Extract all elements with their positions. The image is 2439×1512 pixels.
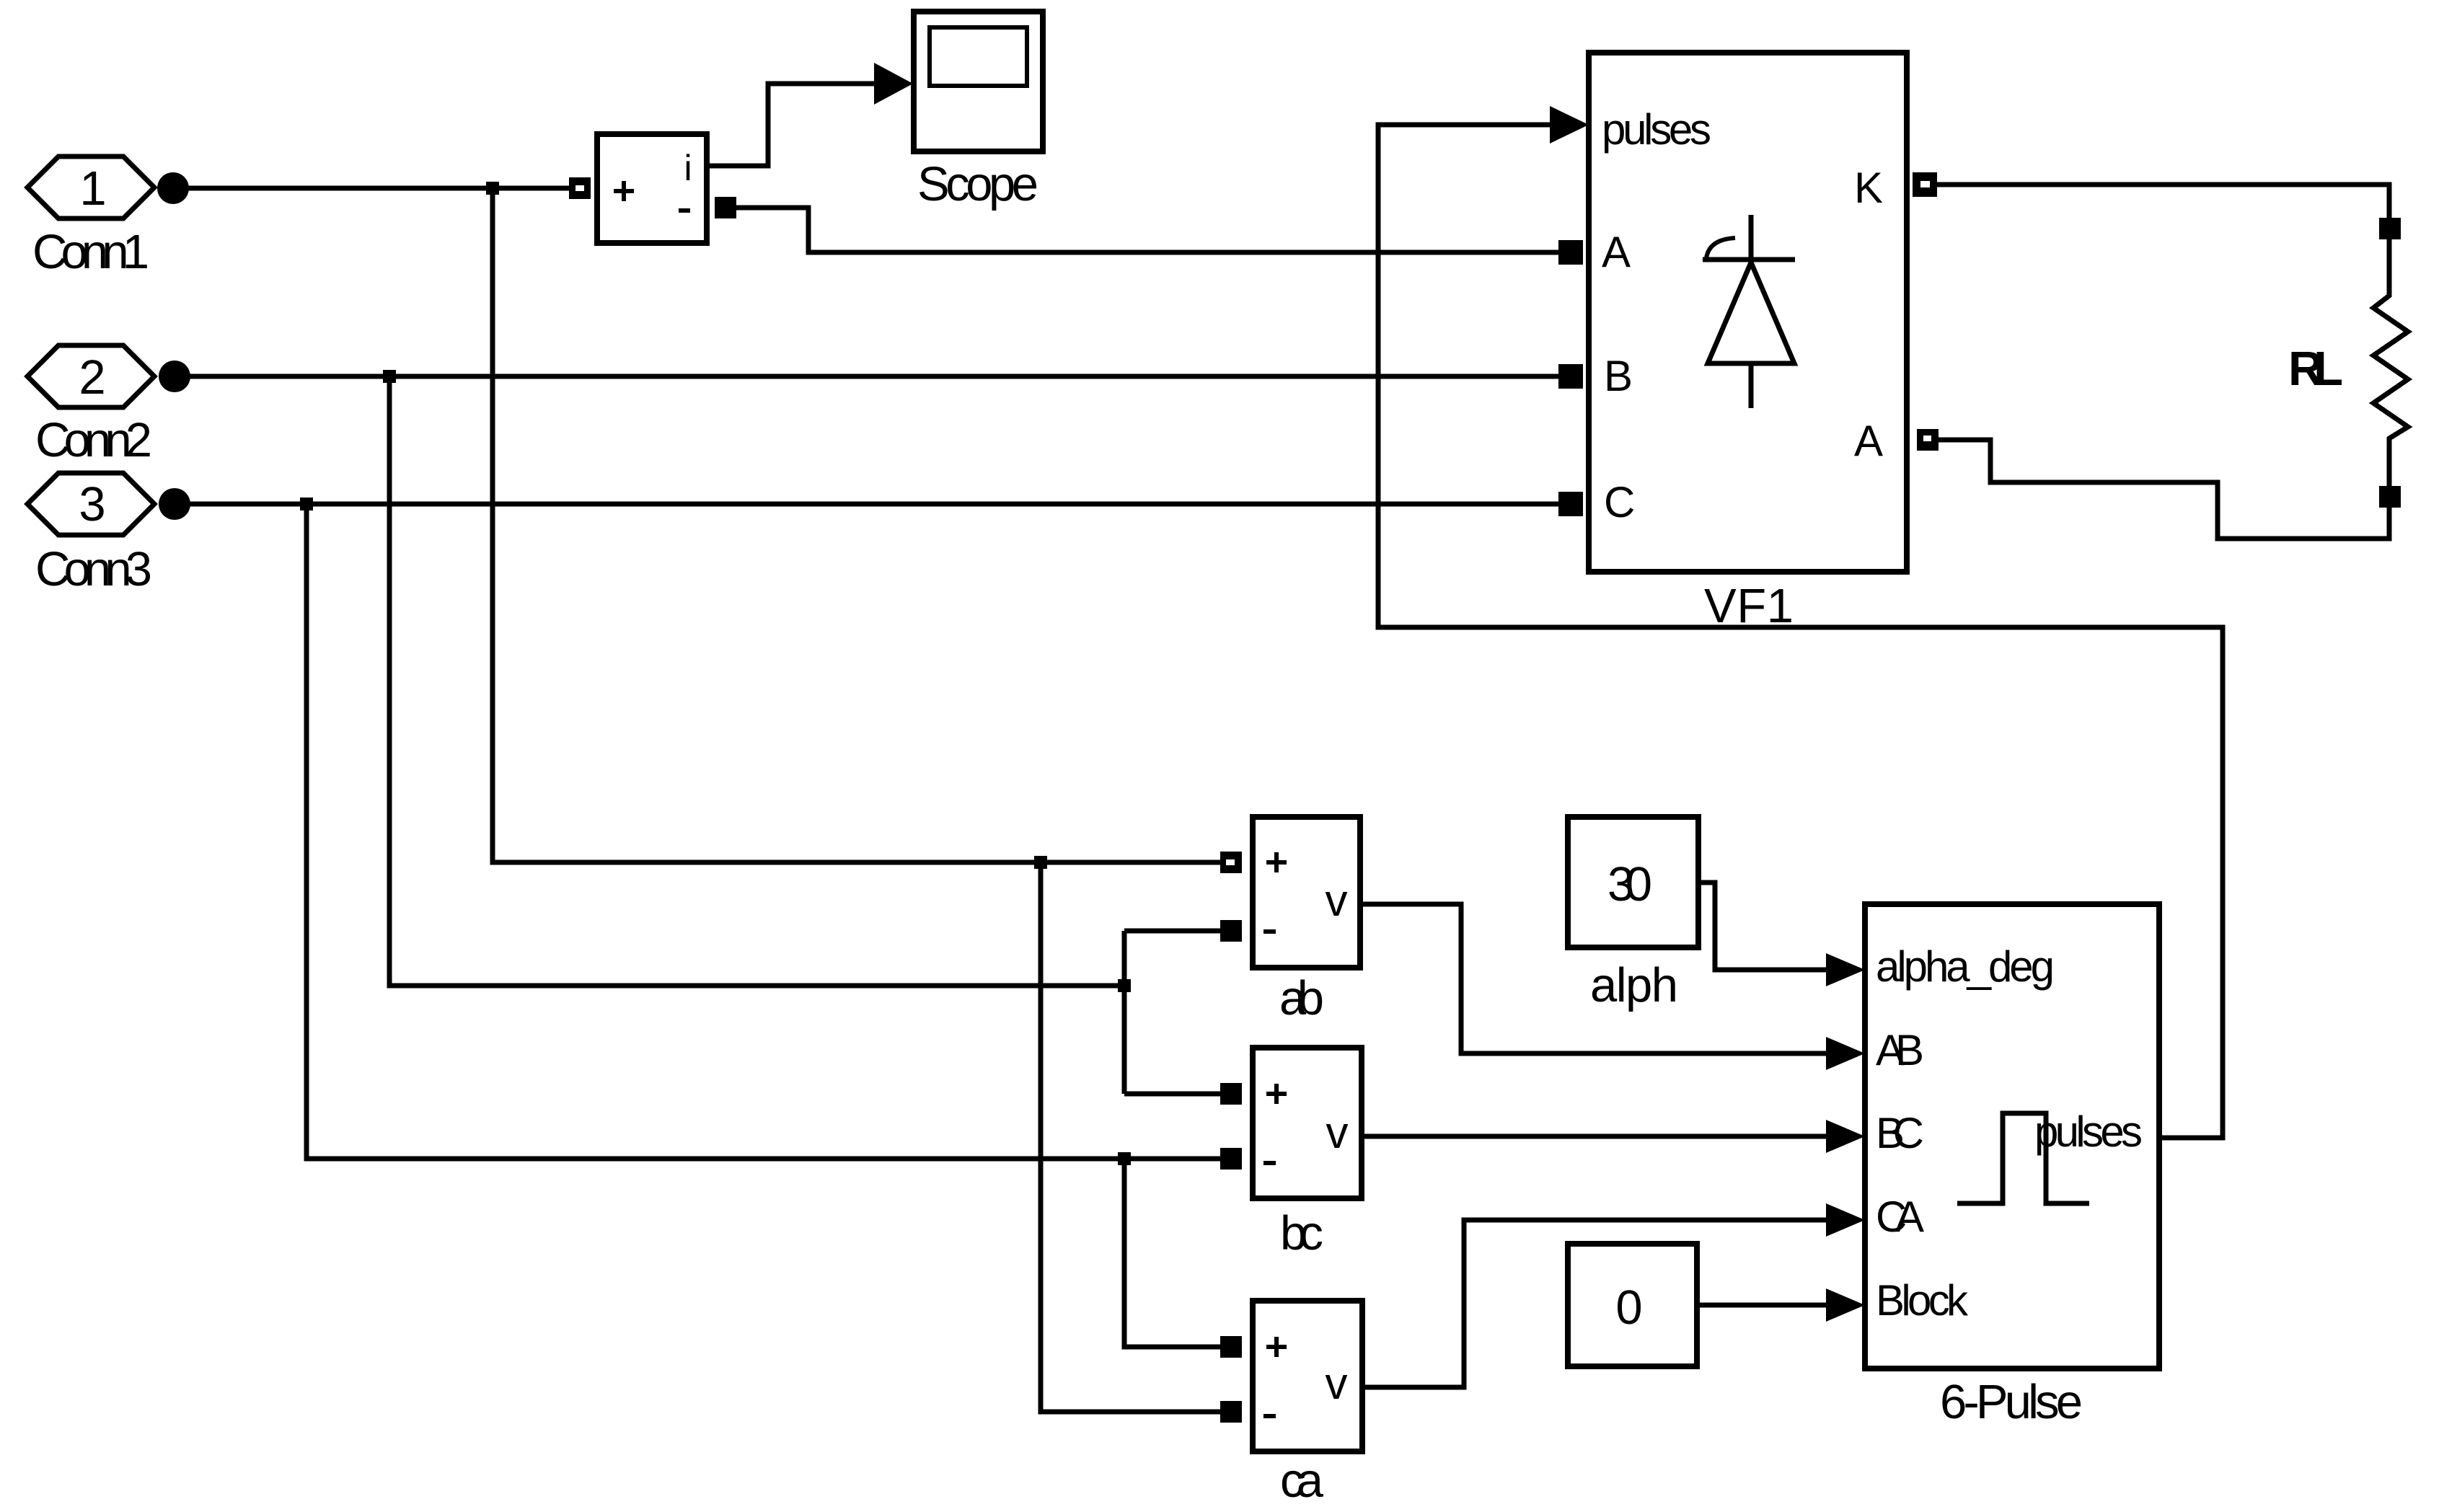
svg-text:C: C	[1604, 478, 1635, 526]
svg-text:pulses: pulses	[2034, 1108, 2143, 1156]
svg-text:3: 3	[79, 477, 105, 531]
svg-text:VF1: VF1	[1704, 579, 1794, 633]
svg-text:RL: RL	[2288, 342, 2343, 396]
svg-text:v: v	[1326, 876, 1348, 926]
svg-text:AB: AB	[1876, 1026, 1924, 1074]
svg-text:1: 1	[79, 162, 106, 216]
svg-text:ab: ab	[1279, 971, 1324, 1025]
svg-text:alpha_deg: alpha_deg	[1876, 942, 2055, 991]
svg-text:pulses: pulses	[1602, 105, 1711, 154]
svg-text:ca: ca	[1280, 1454, 1324, 1508]
svg-text:v: v	[1326, 1359, 1348, 1409]
svg-text:i: i	[684, 148, 692, 188]
svg-text:A: A	[1854, 417, 1883, 465]
svg-text:Scope: Scope	[917, 157, 1038, 211]
svg-text:Block: Block	[1876, 1276, 1969, 1325]
svg-text:A: A	[1602, 228, 1631, 276]
svg-text:6-Pulse: 6-Pulse	[1940, 1375, 2083, 1429]
svg-text:2: 2	[79, 350, 105, 404]
svg-text:v: v	[1326, 1108, 1349, 1158]
svg-text:bc: bc	[1280, 1206, 1323, 1260]
svg-text:B: B	[1604, 352, 1633, 400]
svg-text:BC: BC	[1876, 1109, 1924, 1157]
svg-text:Conn2: Conn2	[35, 413, 152, 467]
svg-text:Conn1: Conn1	[32, 225, 149, 279]
svg-text:30: 30	[1607, 857, 1652, 911]
svg-text:CA: CA	[1876, 1193, 1924, 1241]
svg-text:0: 0	[1615, 1281, 1642, 1335]
svg-text:Conn3: Conn3	[35, 542, 152, 596]
svg-text:alph: alph	[1590, 958, 1678, 1012]
svg-text:K: K	[1854, 164, 1883, 212]
